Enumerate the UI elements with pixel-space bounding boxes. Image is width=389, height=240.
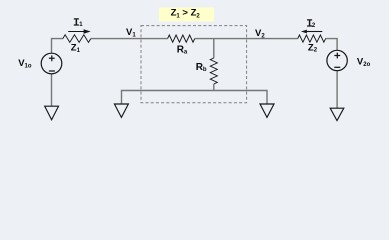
wire: Rb bottom lead <box>213 84 215 91</box>
resistor Rb <box>210 58 217 84</box>
resistor Z2 <box>298 35 326 42</box>
wire: V1o bottom stub <box>51 74 53 107</box>
resistor Ra <box>168 35 195 42</box>
wire: V1o top lead to Z1 <box>52 39 63 54</box>
voltage source V1o <box>41 53 62 74</box>
current arrow I1 <box>68 29 91 33</box>
wire: Rb top lead <box>213 39 215 58</box>
ground (under V2o) <box>330 108 344 120</box>
voltage source V2o <box>327 50 347 70</box>
wire: bottom rail <box>122 91 268 105</box>
label I2 <box>307 20 316 29</box>
wire: Z2 to V2o top lead <box>326 39 338 51</box>
wire: Ra to Z2 (node V2, junction with Rb) <box>195 38 298 40</box>
ground (bottom rail left) <box>114 104 128 117</box>
wire: V2o bottom stub <box>336 71 338 109</box>
resistor Z1 <box>63 35 91 43</box>
current arrow I2 <box>301 30 322 34</box>
ground (bottom rail right) <box>260 104 274 117</box>
annotation Z1 > Z2 <box>159 8 214 22</box>
label I1 <box>74 19 83 28</box>
dashed box (two-port network) <box>141 26 247 103</box>
ground (under V1o) <box>45 106 59 120</box>
wire: Z1 to Ra (node V1) <box>91 38 168 40</box>
svg-text:Z1 > Z2: Z1 > Z2 <box>171 8 201 20</box>
